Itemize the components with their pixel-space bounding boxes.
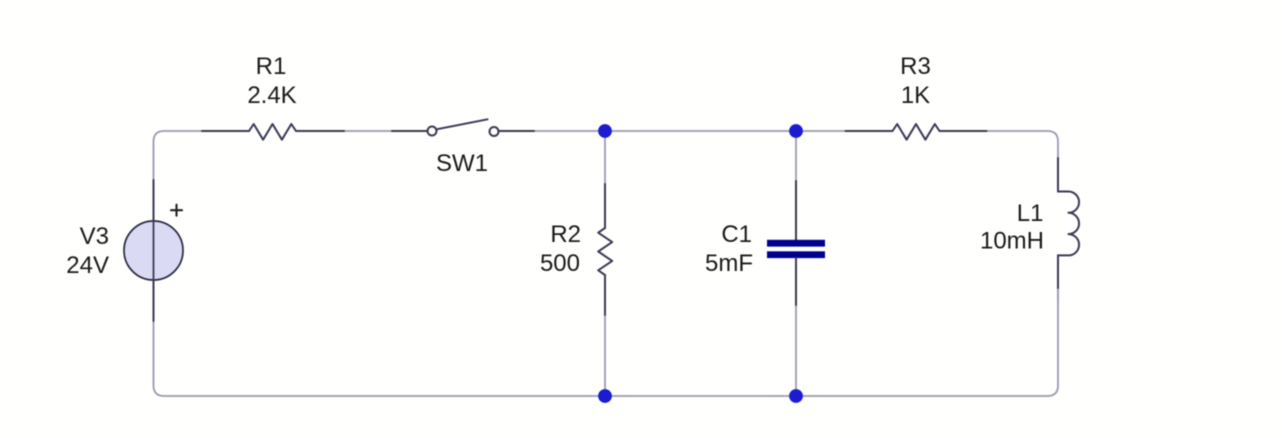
wire bottom rail middle (R2 node to C1 node) xyxy=(605,395,796,397)
switch SW1 xyxy=(392,119,534,136)
voltage source V3 xyxy=(124,180,183,321)
svg-text:V3: V3 xyxy=(80,223,109,250)
wire C1 branch lower xyxy=(795,305,797,396)
svg-text:1K: 1K xyxy=(901,82,930,109)
svg-text:R3: R3 xyxy=(900,53,931,80)
label R3 1K xyxy=(900,53,931,109)
svg-text:2.4K: 2.4K xyxy=(247,82,296,109)
junction node dot top-left (R2 node) xyxy=(598,124,612,138)
wire top rail R2 node to C1 node xyxy=(605,130,796,132)
wire C1 branch upper xyxy=(795,131,797,181)
junction node dot top-right (C1 node) xyxy=(789,124,803,138)
svg-text:5mF: 5mF xyxy=(705,250,753,277)
svg-text:R2: R2 xyxy=(550,221,581,248)
wire R2 branch upper xyxy=(604,131,606,184)
resistor R1 xyxy=(202,124,344,140)
svg-text:24V: 24V xyxy=(66,252,109,279)
capacitor C1 xyxy=(767,181,825,305)
svg-text:R1: R1 xyxy=(256,53,287,80)
wire L1 branch lower xyxy=(1057,288,1059,300)
svg-text:C1: C1 xyxy=(721,221,752,248)
wire between SW1 and R2 node xyxy=(534,130,605,132)
wire top-left corner segment xyxy=(154,131,203,180)
resistor R2 xyxy=(598,184,612,315)
label SW1 xyxy=(436,150,488,177)
label R1 2.4K xyxy=(247,53,296,109)
svg-text:SW1: SW1 xyxy=(436,150,488,177)
wire left vertical below V3 to bottom-left corner xyxy=(154,321,605,396)
label V3 24V xyxy=(66,223,109,279)
label R2 500 xyxy=(540,221,581,277)
wire between R1 and SW1 xyxy=(344,130,392,132)
wire R3 to top-right corner into L1 branch xyxy=(987,131,1059,158)
label C1 5mF xyxy=(705,221,753,277)
svg-text:500: 500 xyxy=(540,250,580,277)
wire R2 branch lower xyxy=(604,315,606,396)
inductor L1 xyxy=(1058,158,1079,288)
wire bottom rail right and bottom-right corner xyxy=(796,288,1058,396)
svg-text:L1: L1 xyxy=(1017,200,1044,227)
resistor R3 xyxy=(846,124,987,140)
junction node dot bottom-left xyxy=(598,389,612,403)
svg-text:10mH: 10mH xyxy=(980,228,1044,255)
junction node dot bottom-right xyxy=(789,389,803,403)
wire C1 node to R3 xyxy=(796,130,846,132)
label L1 10mH xyxy=(980,200,1044,255)
